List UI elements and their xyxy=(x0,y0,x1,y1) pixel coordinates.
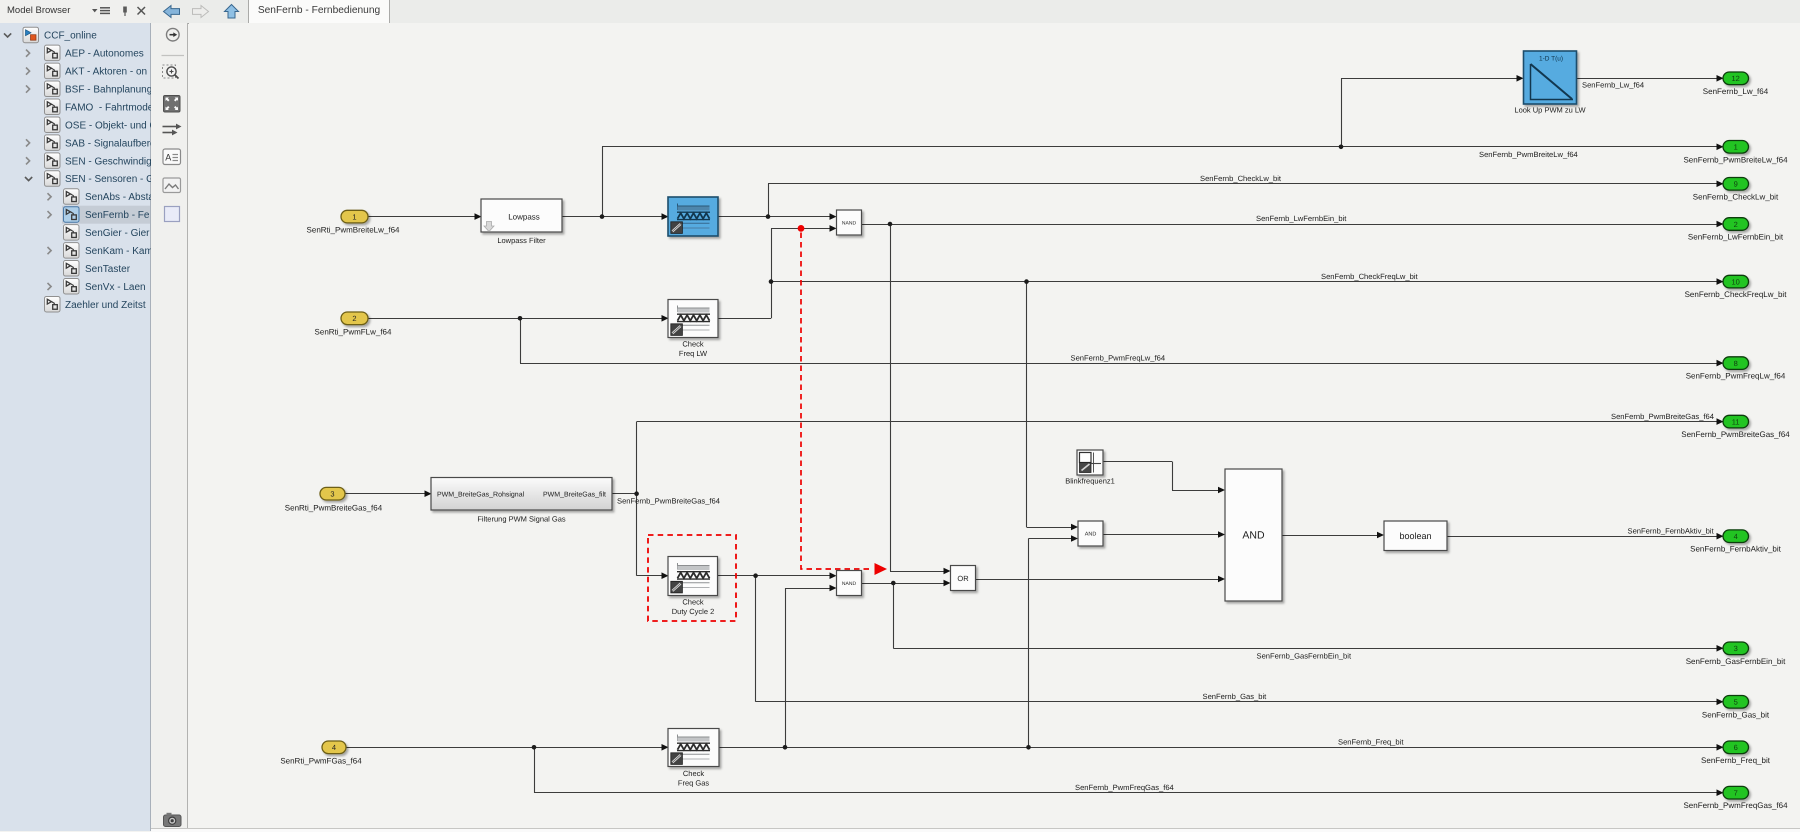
svg-text:Duty Cycle 2: Duty Cycle 2 xyxy=(672,607,715,616)
svg-text:SenRti_PwmFLw_f64: SenRti_PwmFLw_f64 xyxy=(315,327,392,336)
svg-text:SenFernb_Freq_bit: SenFernb_Freq_bit xyxy=(1338,738,1404,747)
svg-text:BSF - Bahnplanung: BSF - Bahnplanung xyxy=(65,84,151,95)
svg-text:Freq Gas: Freq Gas xyxy=(678,779,710,788)
svg-text:FAMO - Fahrtmode: FAMO - Fahrtmode xyxy=(65,102,151,113)
svg-text:SenFernb_CheckFreqLw_bit: SenFernb_CheckFreqLw_bit xyxy=(1321,272,1419,281)
svg-text:SenFernb_LwFernbEin_bit: SenFernb_LwFernbEin_bit xyxy=(1688,233,1784,242)
svg-text:SenRti_PwmBreiteGas_f64: SenRti_PwmBreiteGas_f64 xyxy=(285,503,383,512)
svg-text:SenFernb_PwmBreiteLw_f64: SenFernb_PwmBreiteLw_f64 xyxy=(1683,155,1788,164)
svg-text:NAND: NAND xyxy=(842,220,857,226)
svg-text:3: 3 xyxy=(1734,644,1738,653)
svg-text:AND: AND xyxy=(1242,530,1265,542)
svg-text:SenFernb_CheckFreqLw_bit: SenFernb_CheckFreqLw_bit xyxy=(1685,290,1788,299)
svg-text:SenRti_PwmFGas_f64: SenRti_PwmFGas_f64 xyxy=(280,756,362,765)
svg-text:SenFernb_CheckLw_bit: SenFernb_CheckLw_bit xyxy=(1200,174,1282,183)
svg-text:SenFernb_GasFernbEin_bit: SenFernb_GasFernbEin_bit xyxy=(1686,657,1786,666)
svg-text:SenVx - Laen: SenVx - Laen xyxy=(85,282,146,293)
svg-text:SenKam - Kam: SenKam - Kam xyxy=(85,246,151,257)
svg-text:2: 2 xyxy=(1734,220,1738,229)
svg-text:AEP - Autonomes: AEP - Autonomes xyxy=(65,49,144,60)
svg-text:SenGier - Gier: SenGier - Gier xyxy=(85,228,150,239)
svg-text:9: 9 xyxy=(1734,180,1738,189)
svg-text:SenFernb_PwmBreiteLw_f64: SenFernb_PwmBreiteLw_f64 xyxy=(1479,150,1578,159)
svg-text:1: 1 xyxy=(352,212,356,221)
svg-text:boolean: boolean xyxy=(1399,531,1431,541)
svg-text:NAND: NAND xyxy=(842,581,857,587)
svg-text:4: 4 xyxy=(1734,532,1738,541)
svg-text:SenFernb_GasFernbEin_bit: SenFernb_GasFernbEin_bit xyxy=(1257,652,1352,661)
svg-text:SEN - Sensoren - G: SEN - Sensoren - G xyxy=(65,174,151,185)
svg-text:PWM_BreiteGas_Rohsignal: PWM_BreiteGas_Rohsignal xyxy=(437,491,525,499)
svg-text:SenFernb - Fe: SenFernb - Fe xyxy=(85,210,150,221)
svg-text:SAB - Signalaufbere: SAB - Signalaufbere xyxy=(65,138,151,149)
svg-text:12: 12 xyxy=(1732,74,1740,83)
svg-text:AKT - Aktoren - on: AKT - Aktoren - on xyxy=(65,67,147,78)
svg-text:SenFernb_Lw_f64: SenFernb_Lw_f64 xyxy=(1582,81,1644,90)
svg-text:SenFernb_PwmFreqLw_f64: SenFernb_PwmFreqLw_f64 xyxy=(1686,372,1786,381)
svg-text:2: 2 xyxy=(352,314,356,323)
svg-text:3: 3 xyxy=(330,490,334,499)
svg-text:7: 7 xyxy=(1734,789,1738,798)
svg-text:Look Up PWM zu LW: Look Up PWM zu LW xyxy=(1514,105,1586,114)
svg-text:SenFernb_PwmBreiteGas_f64: SenFernb_PwmBreiteGas_f64 xyxy=(617,497,720,506)
svg-text:SenFernb_CheckLw_bit: SenFernb_CheckLw_bit xyxy=(1693,192,1779,201)
svg-text:SenFernb_FernbAktiv_bit: SenFernb_FernbAktiv_bit xyxy=(1628,526,1715,535)
svg-text:1-D T(u): 1-D T(u) xyxy=(1539,56,1563,63)
svg-text:6: 6 xyxy=(1734,743,1738,752)
svg-text:PWM_BreiteGas_filt: PWM_BreiteGas_filt xyxy=(543,491,606,499)
svg-text:SenFernb_Lw_f64: SenFernb_Lw_f64 xyxy=(1703,87,1769,96)
svg-text:Lowpass: Lowpass xyxy=(508,213,540,222)
svg-text:SenTaster: SenTaster xyxy=(85,264,131,275)
svg-text:Check: Check xyxy=(683,769,705,778)
svg-text:8: 8 xyxy=(1734,359,1738,368)
svg-text:SenRti_PwmBreiteLw_f64: SenRti_PwmBreiteLw_f64 xyxy=(307,226,400,235)
svg-text:SEN - Geschwindig: SEN - Geschwindig xyxy=(65,156,151,167)
svg-text:OR: OR xyxy=(957,574,969,583)
svg-text:SenFernb_FernbAktiv_bit: SenFernb_FernbAktiv_bit xyxy=(1690,545,1781,554)
svg-text:SenFernb_PwmBreiteGas_f64: SenFernb_PwmBreiteGas_f64 xyxy=(1681,430,1790,439)
svg-text:Blinkfrequenz1: Blinkfrequenz1 xyxy=(1065,477,1115,486)
svg-text:Freq LW: Freq LW xyxy=(679,349,708,358)
svg-text:5: 5 xyxy=(1734,698,1738,707)
svg-text:SenFernb_Freq_bit: SenFernb_Freq_bit xyxy=(1701,756,1771,765)
svg-text:1: 1 xyxy=(1734,143,1738,152)
svg-text:Lowpass Filter: Lowpass Filter xyxy=(497,236,546,245)
svg-text:SenFernb_LwFernbEin_bit: SenFernb_LwFernbEin_bit xyxy=(1256,214,1347,223)
svg-text:10: 10 xyxy=(1732,277,1740,286)
svg-text:Zaehler und Zeitst: Zaehler und Zeitst xyxy=(65,300,146,311)
svg-text:SenFernb_Gas_bit: SenFernb_Gas_bit xyxy=(1702,710,1770,719)
svg-text:11: 11 xyxy=(1732,417,1740,426)
svg-text:CCF_online: CCF_online xyxy=(44,31,97,42)
svg-text:SenFernb_PwmFreqLw_f64: SenFernb_PwmFreqLw_f64 xyxy=(1071,353,1166,362)
svg-text:4: 4 xyxy=(332,743,336,752)
svg-text:OSE - Objekt- und G: OSE - Objekt- und G xyxy=(65,120,151,131)
svg-text:Filterung PWM Signal Gas: Filterung PWM Signal Gas xyxy=(477,515,566,524)
svg-text:Check: Check xyxy=(682,598,704,607)
svg-text:A: A xyxy=(165,153,171,163)
svg-text:Check: Check xyxy=(682,340,704,349)
svg-text:SenFernb_PwmFreqGas_f64: SenFernb_PwmFreqGas_f64 xyxy=(1683,801,1788,810)
svg-text:AND: AND xyxy=(1085,532,1097,538)
svg-text:SenFernb_PwmFreqGas_f64: SenFernb_PwmFreqGas_f64 xyxy=(1075,783,1174,792)
svg-text:SenFernb_Gas_bit: SenFernb_Gas_bit xyxy=(1203,692,1268,701)
svg-text:SenAbs - Absta: SenAbs - Absta xyxy=(85,192,151,203)
svg-text:SenFernb_PwmBreiteGas_f64: SenFernb_PwmBreiteGas_f64 xyxy=(1611,412,1714,421)
